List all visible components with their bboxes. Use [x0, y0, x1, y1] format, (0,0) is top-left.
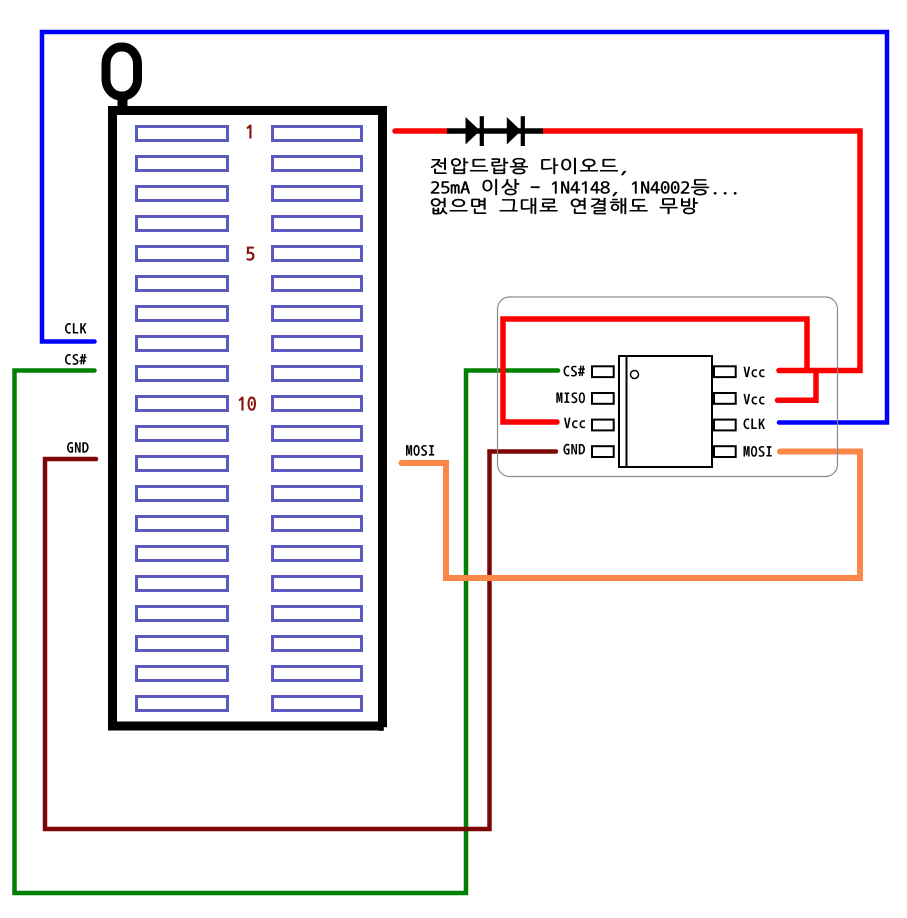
U1 pin 4 (GND, left) — [592, 446, 614, 457]
chip detail rounded box — [498, 297, 838, 477]
socket bottom-right corner step — [379, 727, 388, 731]
label GND (socket) — [67, 442, 89, 453]
wire CS# net (green): socket stub, left vertical, bottom run, right vertical, chip CS# stub — [15, 371, 559, 894]
label CS# (socket) — [65, 354, 86, 365]
label Vcc (U1 pin 8) — [743, 367, 764, 378]
wire Vcc net (red): chip left Vcc stub, riser inside box, top run, drop to junction — [503, 319, 807, 422]
diode D1 — [466, 116, 484, 146]
annotation note line 1 (Korean): voltage-drop diodes — [431, 158, 626, 175]
socket pin number 10 — [239, 397, 256, 411]
wire MOSI net (orange): socket stub, vertical drop, middle run, chip riser, chip MOSI stub — [402, 452, 861, 579]
label MOSI (socket) — [406, 445, 434, 456]
wire Vcc net (red): socket pin1 stub to diodes — [395, 128, 448, 134]
wire CLK net (blue): socket stub, left vertical, top run, right vertical, chip CLK stub — [42, 32, 887, 423]
U1 pin 6 (CLK, right) — [714, 420, 736, 431]
label MOSI (U1 pin 5) — [744, 446, 772, 457]
socket contact slots (20 rows x 2 columns) — [137, 127, 362, 711]
label Vcc (U1 pin 3) — [564, 418, 585, 429]
diode D2 — [507, 116, 525, 146]
ZIF socket body — [113, 111, 383, 727]
annotation note line 2 (Korean): 25mA or more - 1N4148, 1N4002 etc — [431, 179, 736, 196]
U1 pin 5 (MOSI, right) — [714, 446, 736, 457]
socket pin number 1 — [246, 125, 251, 139]
wire Vcc net (red): drop to chip Vcc pin 7 stub — [778, 371, 817, 401]
U1 pin 8 (Vcc, right) — [714, 366, 736, 377]
U1 pin 1 (CS#, left) — [592, 366, 614, 377]
U1 pin 3 (Vcc, left) — [592, 420, 614, 431]
IC U1 pin-1 marker circle — [631, 371, 639, 379]
annotation note line 3 (Korean): may connect directly if none — [431, 198, 698, 214]
wire GND net (dark red): socket stub, vertical drop, bottom run, chip riser, chip GND stub — [45, 452, 556, 830]
label CS# (U1 pin 1) — [564, 366, 585, 377]
diode series link wire (black) — [447, 128, 543, 134]
socket pin number 5 — [247, 247, 255, 261]
label MISO (U1 pin 2) — [556, 392, 585, 403]
IC U1 body (8-pin SOIC) — [619, 356, 712, 467]
U1 pin 7 (Vcc, right) — [714, 393, 736, 404]
wire Vcc net (red): diode output run, right vertical, junction to chip Vcc pin 8 — [543, 131, 860, 371]
label CLK (socket) — [65, 323, 87, 334]
label Vcc (U1 pin 7) — [743, 394, 764, 405]
label CLK (U1 pin 6) — [744, 418, 766, 429]
U1 pin 2 (MISO, left) — [592, 393, 614, 404]
socket lever handle — [106, 47, 138, 107]
label GND (U1 pin 4) — [563, 444, 585, 455]
